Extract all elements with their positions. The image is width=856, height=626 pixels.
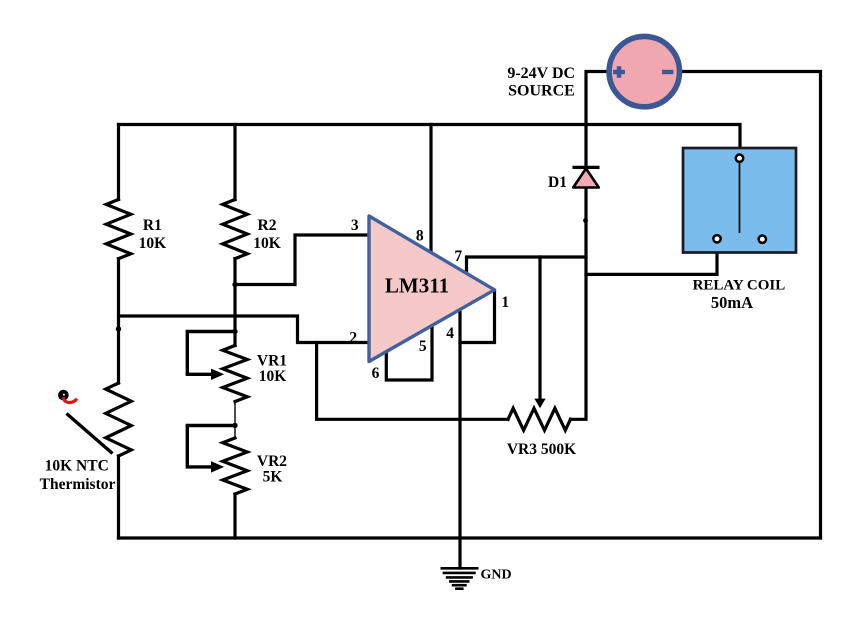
wire output node to relay coil bottom-left pin <box>586 246 717 274</box>
svg-text:SOURCE: SOURCE <box>508 83 575 100</box>
svg-text:Thermistor: Thermistor <box>40 476 116 493</box>
svg-text:VR2: VR2 <box>257 453 287 470</box>
svg-text:5: 5 <box>419 338 427 355</box>
node dot at R2 / pin 3 junction <box>232 282 237 287</box>
potentiometer VR1 wiper arm with arrow <box>187 332 235 375</box>
wire right rail from source minus <box>683 72 821 539</box>
svg-text:VR1: VR1 <box>257 352 287 369</box>
potentiometer VR3 body <box>508 408 571 430</box>
potentiometer VR2 body <box>223 438 248 494</box>
svg-text:9-24V DC: 9-24V DC <box>507 65 575 82</box>
thermistor probe red mark <box>63 397 77 402</box>
wire op-amp pin 1 to pin 4 ground line <box>460 291 495 343</box>
svg-text:1: 1 <box>501 294 509 311</box>
svg-text:R1: R1 <box>143 217 162 234</box>
battery minus terminal mark <box>662 70 673 74</box>
svg-text:5K: 5K <box>263 469 283 486</box>
node dot at R1 / thermistor junction <box>116 326 121 331</box>
op-amp U1 LM311 comparator body <box>369 216 495 362</box>
potentiometer VR3 wiper arrowhead <box>534 399 545 409</box>
potentiometer VR1 body <box>223 346 248 402</box>
svg-text:10K: 10K <box>259 368 287 385</box>
wire D1 cathode to VR3 right terminal <box>571 188 587 419</box>
svg-text:R2: R2 <box>258 217 277 234</box>
wire thermistor bottom to bottom rail <box>117 456 120 538</box>
svg-text:GND: GND <box>481 568 512 583</box>
svg-text:D1: D1 <box>548 174 567 191</box>
wire pin 2 node down to VR3 left terminal <box>317 343 508 420</box>
svg-text:4: 4 <box>446 325 454 342</box>
wire left rail upper <box>117 125 120 200</box>
node dot at D1 cathode junction <box>583 218 588 223</box>
wire bottom ground rail <box>119 536 821 539</box>
ground symbol <box>441 568 479 588</box>
node dot at VR1/VR2 junction <box>232 423 237 428</box>
svg-text:50mA: 50mA <box>711 293 753 312</box>
svg-text:3: 3 <box>351 217 359 234</box>
wire VR2 bottom to bottom rail <box>233 494 236 538</box>
wire R1 bottom to thermistor top <box>117 259 120 383</box>
node dot at VR1 wiper strap junction <box>232 329 237 334</box>
potentiometer VR2 wiper arm with arrow <box>187 426 235 467</box>
svg-text:8: 8 <box>416 228 424 245</box>
diode D1 body <box>573 169 599 188</box>
relay internal armature line <box>739 162 741 233</box>
svg-text:6: 6 <box>372 365 380 382</box>
wire top supply rail with drop to relay top pin <box>119 125 741 154</box>
svg-text:LM311: LM311 <box>385 273 449 297</box>
relay coil box <box>683 148 796 253</box>
thermistor diagonal stroke <box>67 414 113 454</box>
relay bottom-left pin <box>713 235 720 242</box>
svg-text:VR3 500K: VR3 500K <box>507 441 576 458</box>
diode D1 cathode bar <box>573 166 600 169</box>
battery plus terminal mark <box>613 66 625 78</box>
wire R1/thermistor node to op-amp pin 2 <box>119 316 369 343</box>
wire top rail to op-amp pin 8 <box>429 125 432 252</box>
svg-text:7: 7 <box>454 248 462 265</box>
wire VR3 wiper from output line <box>538 257 541 400</box>
resistor R1 <box>106 200 131 259</box>
wire R2 bottom through node A to VR1 top <box>233 259 236 346</box>
wire source plus terminal down to diode D1 <box>586 72 606 167</box>
resistor R2 <box>223 200 248 259</box>
svg-text:2: 2 <box>349 330 357 347</box>
battery source BT1 circle <box>609 36 679 106</box>
svg-text:10K: 10K <box>253 235 281 252</box>
wire op-amp pin 4 to bottom rail and ground stem <box>458 311 461 568</box>
svg-text:10K NTC: 10K NTC <box>45 457 109 474</box>
wire top rail to R2 <box>233 125 236 200</box>
thermistor probe dot <box>58 390 69 401</box>
wire op-amp pin 7 output to D1 node <box>467 257 587 273</box>
svg-text:RELAY COIL: RELAY COIL <box>693 278 786 294</box>
svg-text:10K: 10K <box>139 235 167 252</box>
thermistor RT1 body <box>106 383 132 456</box>
wire node A to op-amp pin 3 <box>235 235 368 285</box>
wire op-amp pins 5 and 6 strap <box>386 328 432 380</box>
relay top pin <box>736 155 743 162</box>
relay bottom-right pin <box>759 236 766 243</box>
wire thin link VR1 bottom to VR2 top <box>234 402 236 439</box>
